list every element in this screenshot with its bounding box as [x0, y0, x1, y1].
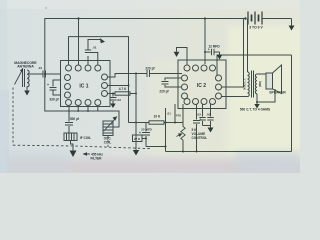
- capacitor .01 series antenna: [42, 71, 44, 78]
- IC2 pins top row: [184, 65, 190, 71]
- speck: [45, 7, 47, 9]
- capacitor 220pf coupling: [146, 70, 148, 77]
- resistor 470: [174, 104, 176, 123]
- svg-text:COIL: COIL: [104, 140, 112, 144]
- ground: arrow below IF coil: [70, 141, 77, 158]
- wire: right feedback vertical: [291, 55, 293, 152]
- annotation arrow 455 filter: [83, 152, 91, 156]
- wire: rail drop to IC2 top pin: [204, 19, 206, 65]
- battery B1: [248, 12, 262, 25]
- svg-text:.01: .01: [92, 46, 97, 50]
- svg-text:SPEAKER: SPEAKER: [269, 91, 286, 95]
- svg-text:+: +: [47, 83, 49, 87]
- wire: battery drop to transformer primary: [247, 19, 249, 73]
- svg-text:330 pf: 330 pf: [49, 98, 59, 102]
- svg-text:ANTENNA: ANTENNA: [17, 65, 34, 69]
- svg-text:IC 2: IC 2: [197, 83, 206, 89]
- svg-text:CONTROL: CONTROL: [192, 136, 208, 140]
- wire: .01 drop to loop: [165, 108, 167, 152]
- svg-text:500 C.T. TO 4 OHMS: 500 C.T. TO 4 OHMS: [240, 108, 270, 112]
- wire: top supply rail: [45, 19, 246, 41]
- wire: IC2 output pins to transformer: [221, 86, 243, 88]
- capacitor .05 bottom right: [207, 104, 213, 128]
- svg-text:(PRI): (PRI): [258, 81, 262, 87]
- svg-text:12 MFD: 12 MFD: [208, 45, 220, 49]
- svg-text:.02: .02: [197, 113, 202, 117]
- wire: battery drop to IC2 output wire: [243, 19, 245, 88]
- ground: arrow IC2 top left: [174, 48, 187, 66]
- antenna coil L1: [15, 68, 30, 87]
- svg-text:IF COIL: IF COIL: [80, 136, 91, 140]
- resistor 4.7K: [108, 92, 136, 95]
- svg-text:.05: .05: [206, 113, 211, 117]
- ground: arrow at battery return: [289, 19, 295, 31]
- wire: antenna to IC1: [29, 73, 43, 75]
- svg-text:.01: .01: [167, 112, 172, 116]
- svg-text:.02: .02: [117, 98, 122, 102]
- capacitor 12 MFD: [204, 49, 222, 60]
- wire: secondary to speaker: [257, 73, 266, 75]
- svg-text:25 MFD: 25 MFD: [141, 127, 153, 131]
- wire: battery to ground arrow: [262, 18, 292, 20]
- capacitor 330pf at IC1 left: [50, 80, 61, 95]
- capacitor .1: [193, 104, 200, 152]
- node: rail junction at x=205: [204, 17, 206, 19]
- svg-text:500Ω C.T.: 500Ω C.T.: [243, 78, 247, 90]
- wire: IC1 pin down x=128.5: [108, 85, 129, 87]
- inductor OSC coil: [103, 116, 117, 135]
- svg-text:4.7 K: 4.7 K: [119, 87, 127, 91]
- IC1 pins right column: [102, 74, 108, 80]
- potentiometer 5K volume: [177, 104, 186, 152]
- node: battery junction: [244, 17, 246, 19]
- IC2 pins right column: [216, 75, 222, 81]
- svg-text:3 TO 9 V: 3 TO 9 V: [249, 26, 263, 30]
- ground: arrow bottom right caps: [208, 128, 214, 133]
- svg-text:.01: .01: [38, 66, 43, 70]
- node: rail junction to IC1 pin2: [77, 17, 79, 19]
- svg-text:27 K: 27 K: [134, 137, 141, 141]
- svg-text:220 pf: 220 pf: [159, 90, 169, 94]
- wire: x=136 main vertical: [135, 74, 137, 151]
- wire: IC1 pin to IF amp coupling: [108, 74, 147, 78]
- svg-text:FILTER: FILTER: [91, 156, 103, 160]
- wire: dashed gang line from antenna: [12, 88, 14, 146]
- inductor IF coil: [64, 133, 77, 141]
- node: junction antenna wire and supply drop: [44, 73, 46, 75]
- svg-text:10 K: 10 K: [154, 115, 161, 119]
- ground: arrow transformer: [254, 101, 259, 109]
- capacitor .02 at IC1 right: [110, 94, 117, 109]
- capacitor 25 MFD: [142, 123, 166, 147]
- IC2 pins bottom row: [184, 99, 190, 105]
- speaker LS1: [266, 65, 282, 94]
- IC1 pins bottom row: [66, 100, 72, 106]
- capacitor .02 bottom right: [199, 104, 205, 126]
- svg-text:470: 470: [176, 113, 181, 117]
- svg-text:+: +: [139, 131, 141, 135]
- wire: inner rail from IC1 pin1: [69, 37, 129, 123]
- svg-text:.1: .1: [199, 117, 202, 121]
- ground: arrow below antenna: [24, 87, 30, 96]
- IC1 U1 package: [61, 61, 111, 107]
- resistor 27K: [133, 135, 143, 142]
- IC2 pins left column: [182, 75, 188, 81]
- paper background: [0, 0, 300, 173]
- resistor 10K: [149, 121, 164, 124]
- wire: output top run: [217, 55, 292, 76]
- capacitor 220pf at IC2 left: [162, 78, 182, 87]
- svg-text:500 pf: 500 pf: [70, 117, 80, 121]
- IC2 U2 package: [178, 60, 226, 109]
- capacitor 500pf: [65, 106, 73, 133]
- transformer T1: [248, 71, 258, 98]
- svg-text:220 pf: 220 pf: [145, 66, 155, 70]
- node: junction pin wire on x=128.5: [128, 85, 130, 87]
- wire: AVC bus below IC1: [45, 40, 119, 127]
- svg-text:IC 1: IC 1: [79, 83, 88, 89]
- label 5K volume control: [192, 128, 208, 140]
- wire: bottom bus y=117.5: [129, 122, 150, 124]
- wire: IC1 bottom pin stubs: [77, 106, 79, 111]
- IC1 pins top row: [66, 65, 72, 71]
- wire: bottom feedback loop: [166, 151, 292, 153]
- IC1 pins left column: [65, 75, 71, 81]
- wire: rail drop to IC1 pin2: [78, 19, 80, 66]
- svg-text:+: +: [208, 48, 210, 52]
- trimmer capacitor at IC1 pin3: [85, 38, 105, 65]
- ground: arrow at x=136: [133, 150, 139, 156]
